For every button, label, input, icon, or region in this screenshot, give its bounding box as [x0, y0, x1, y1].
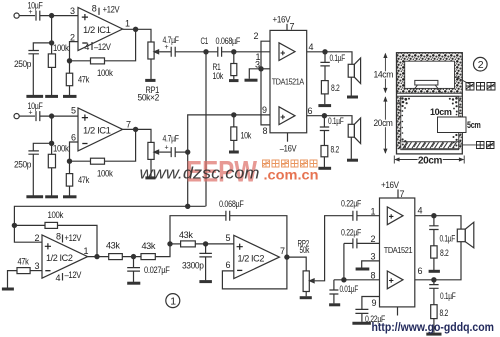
- ground Zobel3: [429, 270, 440, 273]
- input terminal J1 (channel 1): [14, 13, 19, 18]
- capacitor 0.22uF pin2: [353, 238, 357, 248]
- svg-text:+: +: [29, 110, 33, 117]
- ground 0.027uF: [127, 282, 140, 285]
- svg-text:+: +: [165, 44, 169, 51]
- node A dot: [50, 14, 54, 18]
- svg-text:4: 4: [84, 42, 89, 52]
- node output ch1 dot: [134, 27, 138, 31]
- plus amp B2: [389, 278, 393, 282]
- svg-text:3: 3: [371, 252, 376, 262]
- wire 43k3 to pin5 IC2b: [195, 243, 234, 245]
- plus IC2a: [45, 243, 51, 249]
- wire RP2 wiper up to 0.22uF line: [315, 216, 353, 281]
- capacitor 0.068uF feedback: [226, 211, 230, 221]
- wire 47k ch2 to ground: [69, 186, 71, 196]
- svg-text:1: 1: [125, 18, 130, 28]
- node C1 dot: [204, 50, 208, 54]
- svg-text:–12V: –12V: [65, 270, 82, 280]
- circled 1 symbol: [166, 294, 180, 308]
- node pin8 line dot: [342, 278, 346, 282]
- svg-text:3: 3: [35, 261, 40, 271]
- svg-text:3300p: 3300p: [182, 261, 204, 271]
- svg-text:0.1µF: 0.1µF: [330, 53, 346, 63]
- svg-text:TDA1521A: TDA1521A: [272, 78, 305, 87]
- wire 47k to ground: [8, 271, 18, 288]
- svg-text:43k: 43k: [142, 241, 156, 251]
- wire pin2 IC1a: [70, 42, 79, 61]
- wire 3300p to ground: [205, 257, 207, 280]
- svg-text:6: 6: [308, 106, 313, 116]
- wire feedback to output ch1: [105, 29, 136, 61]
- resistor 47k IC2a: [17, 268, 30, 274]
- svg-text:+12V: +12V: [65, 233, 82, 243]
- wire RP1a to 4.7uF: [160, 51, 171, 53]
- IC TDA1521A box: [270, 30, 307, 132]
- node output IC2a dot: [95, 255, 99, 259]
- svg-text:0.1µF: 0.1µF: [328, 116, 344, 126]
- svg-text:+16V: +16V: [273, 14, 291, 24]
- wire output IC2b to RP2: [287, 257, 306, 271]
- resistor 10k ch2: [233, 115, 235, 127]
- wire 8.2 Zobel1 to ground: [324, 94, 326, 104]
- wire RP1a bottom to ground: [150, 59, 152, 79]
- plus IC1a: [82, 14, 88, 20]
- enclosure upper chamber absorber band: [397, 53, 462, 92]
- wire SP1 to ground: [350, 77, 352, 95]
- node 3300p dot: [204, 242, 208, 246]
- wire 43k2 up to node E: [155, 241, 170, 257]
- potentiometer RP1 gang B: [148, 142, 154, 159]
- port duct rectangle: [438, 117, 467, 133]
- svg-text:47k: 47k: [78, 75, 90, 85]
- leader line sand label: [458, 144, 476, 146]
- ground 250p ch2: [26, 195, 43, 198]
- pin4 tick IC2a: [62, 273, 64, 281]
- svg-text:7: 7: [290, 22, 295, 32]
- minus IC1b: [82, 143, 87, 145]
- node Zobel4 dot: [432, 278, 436, 282]
- pin8 stub TDA1521A: [261, 69, 270, 125]
- resistor 100k input ch1: [51, 43, 53, 54]
- svg-text:2: 2: [478, 59, 484, 71]
- speaker driver cone: [411, 85, 441, 93]
- wire pin9 cap to ground: [361, 313, 363, 321]
- plus IC2b: [237, 244, 243, 250]
- svg-text:2: 2: [35, 233, 40, 243]
- svg-text:3: 3: [255, 60, 260, 70]
- svg-text:8.2: 8.2: [331, 145, 340, 155]
- wire output IC2a: [88, 256, 109, 258]
- minus IC2a: [45, 270, 50, 272]
- svg-text:0.1µF: 0.1µF: [440, 234, 456, 244]
- wire pin2 line down to pin8 line: [343, 243, 345, 279]
- speaker driver magnet: [415, 80, 438, 85]
- resistor 43k third: [181, 241, 196, 247]
- enclosure outer box: [397, 53, 463, 154]
- svg-text:0.068µF: 0.068µF: [219, 199, 244, 209]
- op-amp U1A IC1 triangle: [78, 8, 123, 51]
- wire 100k to ground: [51, 67, 53, 95]
- svg-text:6: 6: [71, 133, 76, 143]
- circled 2 symbol: [474, 57, 488, 71]
- svg-text:9: 9: [262, 105, 267, 115]
- wire 10uF ch2 to node: [40, 115, 78, 117]
- wire 0.22uF to pin1 TDA1521: [357, 215, 380, 217]
- capacitor 0.1uF Zobel4: [433, 280, 435, 285]
- resistor 47k ch1: [69, 61, 71, 73]
- svg-text:7: 7: [126, 119, 131, 129]
- wire node D down to summing line: [187, 152, 189, 206]
- capacitor 3300p: [205, 244, 207, 254]
- svg-text:10cm: 10cm: [430, 107, 452, 117]
- ground RP1a: [145, 79, 155, 82]
- capacitor 4.7uF ch1: [171, 47, 175, 57]
- node B dot: [50, 41, 54, 45]
- leader line absorber label: [455, 77, 471, 85]
- svg-text:–12V: –12V: [94, 42, 111, 52]
- svg-text:100k: 100k: [53, 144, 69, 154]
- wire 250p to ground: [32, 54, 34, 96]
- svg-text:6: 6: [418, 266, 423, 276]
- wire node to ground TDA1521A: [249, 69, 261, 79]
- capacitor 0.1uF Zobel3: [433, 216, 435, 226]
- ground RP2: [300, 296, 312, 299]
- wire pin2 line with 0.22uF: [344, 242, 353, 244]
- svg-text:7: 7: [400, 189, 405, 199]
- pin3 stub TDA1521: [362, 261, 380, 268]
- resistor 8.2 Zobel3: [433, 230, 435, 246]
- enclosure upper inner cavity: [405, 61, 455, 88]
- wire 10uF to node A: [40, 15, 78, 17]
- wire 43k1 to 43k2: [122, 256, 141, 258]
- ground 10k ch2: [229, 151, 239, 154]
- svg-text:1: 1: [371, 207, 376, 217]
- node Zobel1 dot: [323, 50, 327, 54]
- potentiometer RP1 gang A: [148, 42, 154, 59]
- RP2 wiper arrow: [310, 280, 315, 282]
- pin6 output wire TDA1521A: [307, 116, 352, 125]
- enclosure divider shelf: [397, 93, 463, 96]
- ground 3300p: [199, 280, 212, 283]
- resistor R1 10k: [233, 52, 235, 64]
- pin8 tick IC2a: [62, 235, 64, 243]
- resistor 100k input ch2: [51, 143, 53, 154]
- wire 250p ch2 to ground: [32, 154, 34, 196]
- svg-text:100k: 100k: [97, 169, 113, 179]
- wire node A down to node B: [51, 16, 53, 43]
- wire J1 to C 10uF: [19, 15, 35, 17]
- node E dot: [168, 242, 172, 246]
- svg-text:1: 1: [170, 296, 176, 308]
- ground Zobel1: [318, 104, 331, 107]
- wire 0.068uF to TDA pin1: [222, 51, 270, 53]
- node feedback IC2a dot: [12, 223, 16, 227]
- svg-text:http://www.go-gddq.com: http://www.go-gddq.com: [372, 320, 495, 334]
- enclosure lower corner absorber left: [398, 97, 410, 148]
- wire node A2 down: [51, 116, 53, 143]
- wire 0.027uF to ground: [133, 271, 135, 282]
- wire 8.2 Zobel4 to ground: [433, 319, 435, 333]
- wire node B left to capacitor 250p ch1: [33, 43, 51, 51]
- svg-text:TDA1521: TDA1521: [384, 246, 413, 255]
- potentiometer RP2: [303, 271, 309, 292]
- resistor 8.2 Zobel2: [323, 131, 325, 146]
- wire R1 to ground: [233, 76, 235, 80]
- svg-text:4.7µF: 4.7µF: [163, 134, 180, 144]
- op-amp U2B IC2 triangle: [234, 235, 280, 278]
- ground SP2: [347, 159, 358, 162]
- svg-text:43k: 43k: [106, 241, 120, 251]
- svg-text:5: 5: [226, 233, 231, 243]
- svg-text:0.1µF: 0.1µF: [440, 291, 456, 301]
- capacitor 10uF ch2: [36, 111, 40, 121]
- ground 250p ch1: [26, 95, 43, 98]
- ground 100k ch2: [45, 195, 58, 198]
- svg-text:www.dzsc.com: www.dzsc.com: [140, 164, 260, 183]
- pin4 tick IC1a: [91, 42, 93, 50]
- svg-text:100k: 100k: [97, 68, 113, 78]
- speaker SP2: [348, 124, 354, 137]
- wire node D up to ch2 line: [188, 115, 270, 152]
- plus IC1b: [82, 115, 88, 121]
- pin5 stub TDA1521: [397, 307, 399, 316]
- ground pin9 TDA1521: [352, 322, 371, 325]
- speaker SP1: [348, 64, 354, 77]
- resistor 43k second: [141, 254, 155, 260]
- wire output IC1a: [123, 29, 151, 42]
- svg-text:14cm: 14cm: [374, 70, 394, 80]
- capacitor 0.22uF pin1: [353, 211, 357, 221]
- svg-text:8: 8: [56, 232, 61, 242]
- svg-text:0.027µF: 0.027µF: [144, 265, 170, 275]
- node R1 dot: [232, 50, 236, 54]
- wire node to pin2 IC2a: [14, 225, 42, 242]
- wire SP2 to ground: [350, 137, 352, 159]
- svg-text:.com.cn: .com.cn: [264, 168, 319, 183]
- resistor 43k first: [109, 254, 123, 260]
- dimension line 14cm: [384, 54, 386, 93]
- wire 8.2 Zobel3 to ground: [433, 258, 435, 270]
- wire 0.22uF to pin2 TDA1521: [357, 242, 380, 244]
- watermark chinese dianzi chanpin shijie: [263, 160, 318, 167]
- svg-text:1/2 IC2: 1/2 IC2: [238, 254, 265, 264]
- svg-text:8.2: 8.2: [440, 308, 449, 318]
- capacitor 0.027uF: [133, 257, 135, 268]
- capacitor 0.1uF Zobel1: [324, 52, 326, 63]
- svg-text:+: +: [165, 144, 169, 151]
- svg-text:8: 8: [92, 3, 97, 13]
- svg-text:1/2 IC1: 1/2 IC1: [83, 25, 111, 35]
- amp triangle B1 TDA1521: [387, 207, 403, 225]
- node R2 dot: [232, 113, 236, 117]
- svg-text:43k: 43k: [179, 230, 193, 240]
- svg-text:20cm: 20cm: [418, 155, 443, 166]
- svg-text:0.22µF: 0.22µF: [341, 199, 362, 209]
- resistor 100k feedback IC2a: [14, 224, 45, 226]
- capacitor 250p ch1: [28, 51, 39, 54]
- svg-text:100k: 100k: [48, 210, 64, 220]
- svg-text:10k: 10k: [241, 131, 252, 141]
- ground 47k ch1: [63, 95, 77, 98]
- svg-text:5cm: 5cm: [467, 120, 481, 130]
- svg-text:0.01µF: 0.01µF: [340, 284, 359, 294]
- op-amp U2A IC2 triangle: [42, 235, 88, 278]
- pin5 wire TDA1521A to -16V: [287, 133, 289, 142]
- svg-text:2: 2: [371, 234, 376, 244]
- node output IC2b dot: [285, 255, 289, 259]
- enclosure lower left wall absorber: [397, 97, 401, 149]
- svg-text:0.068µF: 0.068µF: [216, 36, 241, 46]
- wire RP2 bottom to ground: [305, 292, 307, 297]
- svg-text:20cm: 20cm: [374, 118, 393, 128]
- svg-text:C1: C1: [201, 36, 209, 46]
- minus IC1a: [82, 42, 87, 44]
- capacitor 0.1uF Zobel2: [323, 116, 325, 127]
- node Zobel2 dot: [322, 114, 326, 118]
- wire node E up to 0.068uF feedback: [170, 216, 226, 244]
- wire RP1b to 4.7uF ch2: [160, 151, 171, 153]
- svg-text:3: 3: [70, 6, 75, 16]
- wire 4.7uF to node C1: [175, 51, 218, 53]
- input terminal J2 (channel 2): [14, 114, 19, 119]
- pin4 output wire TDA1521: [415, 216, 461, 229]
- capacitor 10uF ch1: [36, 11, 40, 21]
- svg-text:9: 9: [372, 298, 377, 308]
- wire J2 to C 10uF ch2: [19, 115, 35, 117]
- node B2 dot: [50, 141, 54, 145]
- amp triangle A2 TDA1521A: [279, 107, 295, 125]
- node A2 dot: [50, 114, 54, 118]
- node pin6 ch2 dot: [67, 159, 71, 163]
- minus IC2b: [237, 269, 242, 271]
- svg-text:50k: 50k: [300, 245, 310, 255]
- svg-text:+12V: +12V: [103, 5, 120, 15]
- ground Zobel2: [318, 167, 331, 170]
- pin9 stub TDA1521: [362, 297, 380, 310]
- wire 10k ch2 to ground: [233, 140, 235, 150]
- wire pin8 line: [334, 279, 380, 281]
- enclosure lower inner cavity line: [401, 96, 459, 149]
- svg-text:7: 7: [280, 246, 285, 256]
- svg-text:–16V: –16V: [280, 144, 297, 154]
- svg-text:10k: 10k: [213, 71, 224, 81]
- pin7 wire TDA1521: [397, 189, 399, 198]
- pin8 tick IC1a: [98, 8, 100, 15]
- svg-text:250p: 250p: [14, 160, 31, 170]
- svg-text:4: 4: [309, 42, 314, 52]
- ground 100k ch1: [45, 95, 58, 98]
- pin2 stub TDA1521A: [261, 41, 270, 69]
- node summing D dot: [186, 204, 190, 208]
- svg-text:47k: 47k: [18, 257, 30, 267]
- capacitor 0.068uF ch1: [218, 47, 222, 57]
- RP1b wiper arrow: [155, 151, 160, 153]
- ground pins 2-3 TDA1521A: [245, 79, 258, 82]
- svg-text:0.22µF: 0.22µF: [341, 228, 362, 238]
- enclosure lower corner absorber right: [449, 97, 461, 148]
- svg-text:6: 6: [226, 260, 231, 270]
- svg-text:1/2 IC2: 1/2 IC2: [46, 253, 73, 263]
- svg-text:4: 4: [418, 206, 423, 216]
- wire output IC1b: [123, 129, 151, 142]
- op-amp U1B IC1 triangle: [78, 108, 123, 151]
- capacitor 250p ch2: [28, 151, 39, 154]
- plus amp A2: [281, 115, 285, 119]
- ground SP1: [347, 96, 358, 99]
- wire 100k IC2a to output: [58, 225, 98, 256]
- svg-text:1: 1: [84, 246, 89, 256]
- wire 100k ch2 to ground: [51, 168, 53, 196]
- resistor 100k feedback ch2: [70, 160, 91, 162]
- node D dot: [186, 150, 190, 154]
- wire 0.01uF to ground: [333, 294, 335, 303]
- svg-text:8.2: 8.2: [440, 248, 449, 258]
- pin6 output wire TDA1521: [415, 242, 461, 280]
- svg-text:+: +: [29, 9, 33, 16]
- wire node E to 43k3: [170, 243, 181, 245]
- ground Zobel4: [426, 333, 441, 336]
- ground 0.01uF: [329, 303, 340, 306]
- plus amp A1: [281, 51, 285, 55]
- resistor 47k ch2: [69, 161, 71, 173]
- svg-text:8.2: 8.2: [331, 83, 340, 93]
- IC TDA1521 box: [380, 198, 415, 307]
- node output ch2 dot: [134, 127, 138, 131]
- enclosure lower right wall absorber: [459, 97, 462, 118]
- svg-text:4: 4: [56, 273, 61, 283]
- svg-text:100k: 100k: [53, 43, 69, 53]
- plus amp B1: [389, 214, 393, 218]
- summing line wire: [14, 206, 205, 225]
- resistor 8.2 Zobel4: [433, 288, 435, 304]
- resistor 100k feedback ch1: [70, 60, 91, 62]
- pin6 feedback wire IC2b: [222, 257, 287, 289]
- speaker SP3: [457, 229, 465, 242]
- amp triangle B2 TDA1521: [387, 271, 403, 289]
- resistor 8.2 Zobel1: [324, 66, 326, 81]
- wire 47k to pin3 IC2a: [30, 270, 42, 272]
- svg-text:2: 2: [70, 33, 75, 43]
- svg-text:8: 8: [263, 126, 268, 136]
- sand layer hatch: [402, 142, 459, 149]
- ground RP1b: [145, 176, 155, 179]
- wire 8.2 Zobel2 to ground: [323, 157, 325, 167]
- svg-text:+16V: +16V: [381, 180, 399, 190]
- ground 47k IC2a: [2, 288, 14, 291]
- wire 4.7uF ch2 to node D: [175, 151, 188, 153]
- wire node B2 left to 250p ch2: [33, 143, 51, 151]
- label absorber cotton chinese: [466, 83, 495, 91]
- pin7 wire TDA1521A: [286, 24, 288, 31]
- wire 0.068uF to output IC2b: [230, 216, 287, 257]
- capacitor 4.7uF ch2: [171, 147, 175, 157]
- wire 47k to ground: [69, 86, 71, 96]
- svg-text:5: 5: [71, 105, 76, 115]
- wire pin6 IC1b: [70, 142, 79, 161]
- node pin2 ch1 dot: [67, 59, 71, 63]
- capacitor 0.22uF pin9: [355, 309, 368, 313]
- node 0.027uF dot: [131, 255, 135, 259]
- pin4 output wire TDA1521A: [307, 52, 352, 65]
- dimension line 20cm left: [384, 97, 386, 153]
- wire feedback ch2 to output: [105, 129, 136, 161]
- ground pin3 TDA1521: [356, 268, 370, 271]
- pin3 stub TDA1521A with node: [261, 68, 270, 70]
- label fine sand chinese: [477, 142, 495, 149]
- node Zobel3 dot: [432, 214, 436, 218]
- svg-text:8: 8: [371, 271, 376, 281]
- ground 47k ch2: [63, 195, 77, 198]
